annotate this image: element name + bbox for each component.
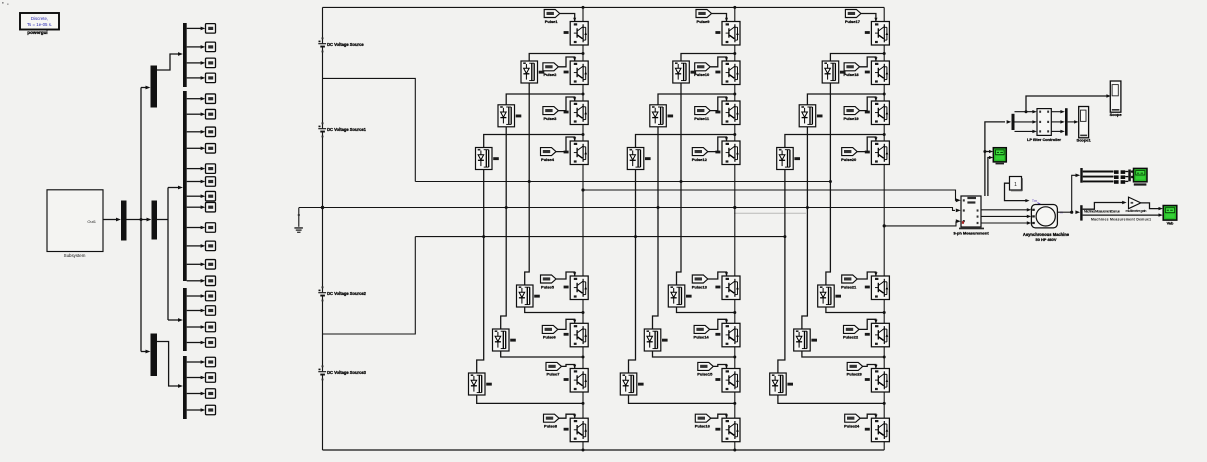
svg-text:Pulse2: Pulse2 [543, 72, 557, 77]
svg-text:Pulse13: Pulse13 [692, 284, 708, 289]
svg-text:Pulse21: Pulse21 [841, 284, 857, 289]
svg-text:3-ph Measurement: 3-ph Measurement [953, 230, 989, 235]
svg-text:Pulse14: Pulse14 [694, 335, 710, 340]
svg-text:DC Voltage Source: DC Voltage Source [327, 42, 364, 47]
svg-text:LP filter Controller: LP filter Controller [1027, 137, 1062, 142]
svg-text:Pulse18: Pulse18 [844, 72, 860, 77]
svg-text:Pulse5: Pulse5 [541, 284, 555, 289]
svg-text:Machines Measurement Demux: Machines Measurement Demux [1084, 209, 1120, 213]
svg-text:Pulse8: Pulse8 [544, 424, 558, 429]
svg-text:Tm: Tm [1032, 199, 1037, 203]
svg-text:Vab: Vab [1167, 221, 1174, 225]
svg-text:Ts = 1e-05 s.: Ts = 1e-05 s. [27, 22, 52, 27]
svg-text:50 HP 460V: 50 HP 460V [1036, 237, 1057, 242]
svg-text:Pulse6: Pulse6 [543, 335, 557, 340]
svg-text:Pulse4: Pulse4 [541, 157, 555, 162]
svg-text:Pulse19: Pulse19 [844, 116, 860, 121]
svg-text:Pulse22: Pulse22 [843, 335, 859, 340]
svg-text:Pulse20: Pulse20 [841, 157, 857, 162]
svg-text:Pulse16: Pulse16 [695, 424, 711, 429]
svg-text:Discrete,: Discrete, [31, 16, 48, 21]
svg-text:Pulse23: Pulse23 [847, 372, 863, 377]
svg-text:1: 1 [1014, 182, 1017, 188]
svg-text:Subsystem: Subsystem [64, 253, 86, 258]
svg-text:Out1: Out1 [87, 219, 96, 224]
svg-text:Pulse10: Pulse10 [694, 72, 710, 77]
svg-text:Pulse7: Pulse7 [547, 372, 561, 377]
svg-text:DC Voltage Source3: DC Voltage Source3 [327, 370, 367, 375]
svg-text:Pulse15: Pulse15 [697, 372, 713, 377]
svg-text:Scope: Scope [1110, 112, 1123, 117]
svg-text:DC Voltage Source1: DC Voltage Source1 [327, 127, 367, 132]
svg-text:Pulse3: Pulse3 [543, 116, 557, 121]
svg-text:DC Voltage Source2: DC Voltage Source2 [327, 291, 367, 296]
svg-text:powergui: powergui [27, 30, 47, 35]
svg-text:Pulse24: Pulse24 [844, 424, 860, 429]
svg-text:multimeter gain: multimeter gain [1126, 209, 1147, 213]
svg-text:Pulse12: Pulse12 [692, 157, 708, 162]
svg-text:Pulse1: Pulse1 [545, 19, 559, 24]
svg-text:Pulse11: Pulse11 [694, 116, 710, 121]
svg-text:Pulse17: Pulse17 [845, 19, 861, 24]
svg-text:Machines Measurement Demux1: Machines Measurement Demux1 [1091, 217, 1151, 221]
svg-text:Pulse9: Pulse9 [697, 19, 711, 24]
svg-text:Scope1: Scope1 [1077, 137, 1092, 142]
